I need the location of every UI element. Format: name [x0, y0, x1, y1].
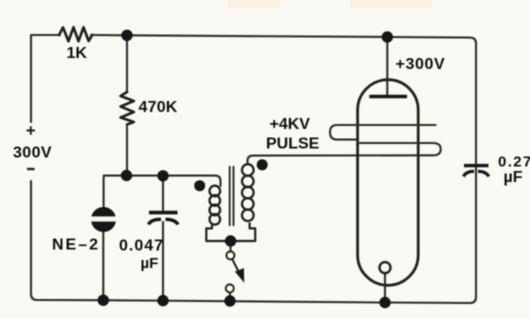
junction dot bottom cathode	[379, 297, 390, 308]
transformer T1 secondary winding	[242, 164, 254, 221]
transformer T1 primary winding	[210, 186, 221, 225]
transformer T1 bottom bracket	[206, 223, 255, 242]
tube V1 plate	[369, 95, 407, 99]
wire bottom rail	[31, 294, 476, 303]
resistor R2 470K	[121, 92, 134, 125]
tube V1 cathode circle	[380, 262, 391, 273]
junction dot bottom switch	[224, 295, 235, 306]
switch S1 stub from bracket	[229, 241, 231, 252]
svg-text:NE–2: NE–2	[52, 237, 100, 254]
primary phasing dot	[194, 180, 205, 191]
tube V1 grid upper staple	[330, 125, 436, 140]
svg-text:µF: µF	[504, 169, 523, 186]
wire NE-2 bottom lead	[102, 232, 104, 301]
wire right side	[475, 44, 477, 297]
junction dot node C1	[157, 170, 168, 181]
capacitor C2 0.27uF plates	[464, 166, 489, 177]
battery B1 plus sign	[27, 126, 36, 134]
svg-text:+4KV: +4KV	[270, 116, 311, 133]
svg-text:+300V: +300V	[396, 56, 446, 73]
svg-text:1K: 1K	[67, 45, 88, 62]
junction dot top plate	[382, 31, 393, 42]
svg-text:0.047: 0.047	[119, 238, 164, 255]
svg-text:PULSE: PULSE	[266, 136, 320, 153]
junction dot bottom C1	[157, 295, 168, 306]
wire plate lead	[386, 37, 388, 95]
svg-text:0.27: 0.27	[498, 154, 530, 171]
transformer T1 core	[230, 166, 234, 226]
wire left side upper (top to battery plus)	[30, 35, 32, 122]
switch S1 stub to bottom rail	[229, 292, 231, 301]
tube V1 grid lower staple	[358, 143, 440, 155]
tube V1 envelope	[358, 80, 419, 286]
neon lamp NE-2	[89, 208, 118, 230]
wire C1 bottom lead	[162, 222, 164, 301]
battery B1 minus sign	[27, 168, 35, 170]
wire top rail left	[31, 34, 60, 36]
wire cathode lead	[384, 273, 386, 302]
wire NE-2 top lead	[103, 176, 105, 208]
resistor R1 1K	[59, 27, 92, 41]
wire top rail right	[387, 37, 476, 44]
wire left side lower (battery minus to bottom)	[30, 181, 32, 294]
wire top rail middle	[91, 35, 387, 37]
junction dot node 470K	[121, 170, 132, 181]
switch S1 lower contact	[226, 285, 234, 293]
wire secondary to grid (+4KV pulse lead)	[248, 155, 434, 164]
wire 470K top lead	[126, 35, 128, 92]
wire C1 top lead	[162, 176, 164, 211]
svg-text:470K: 470K	[139, 99, 178, 116]
switch S1 upper contact	[227, 252, 235, 260]
wire 470K bottom lead	[126, 125, 128, 176]
junction dot bottom NE-2	[98, 295, 109, 306]
secondary phasing dot	[257, 159, 268, 170]
svg-text:300V: 300V	[13, 145, 52, 162]
capacitor C1 0.047uF plates	[149, 213, 179, 225]
wire node row (NE-2 / 470K / C1 / transformer primary)	[104, 176, 221, 186]
svg-text:µF: µF	[141, 255, 159, 272]
junction dot top 470K	[121, 30, 132, 41]
switch S1 blade with arrowhead	[232, 259, 243, 281]
junction dot transformer bottom	[225, 235, 236, 246]
